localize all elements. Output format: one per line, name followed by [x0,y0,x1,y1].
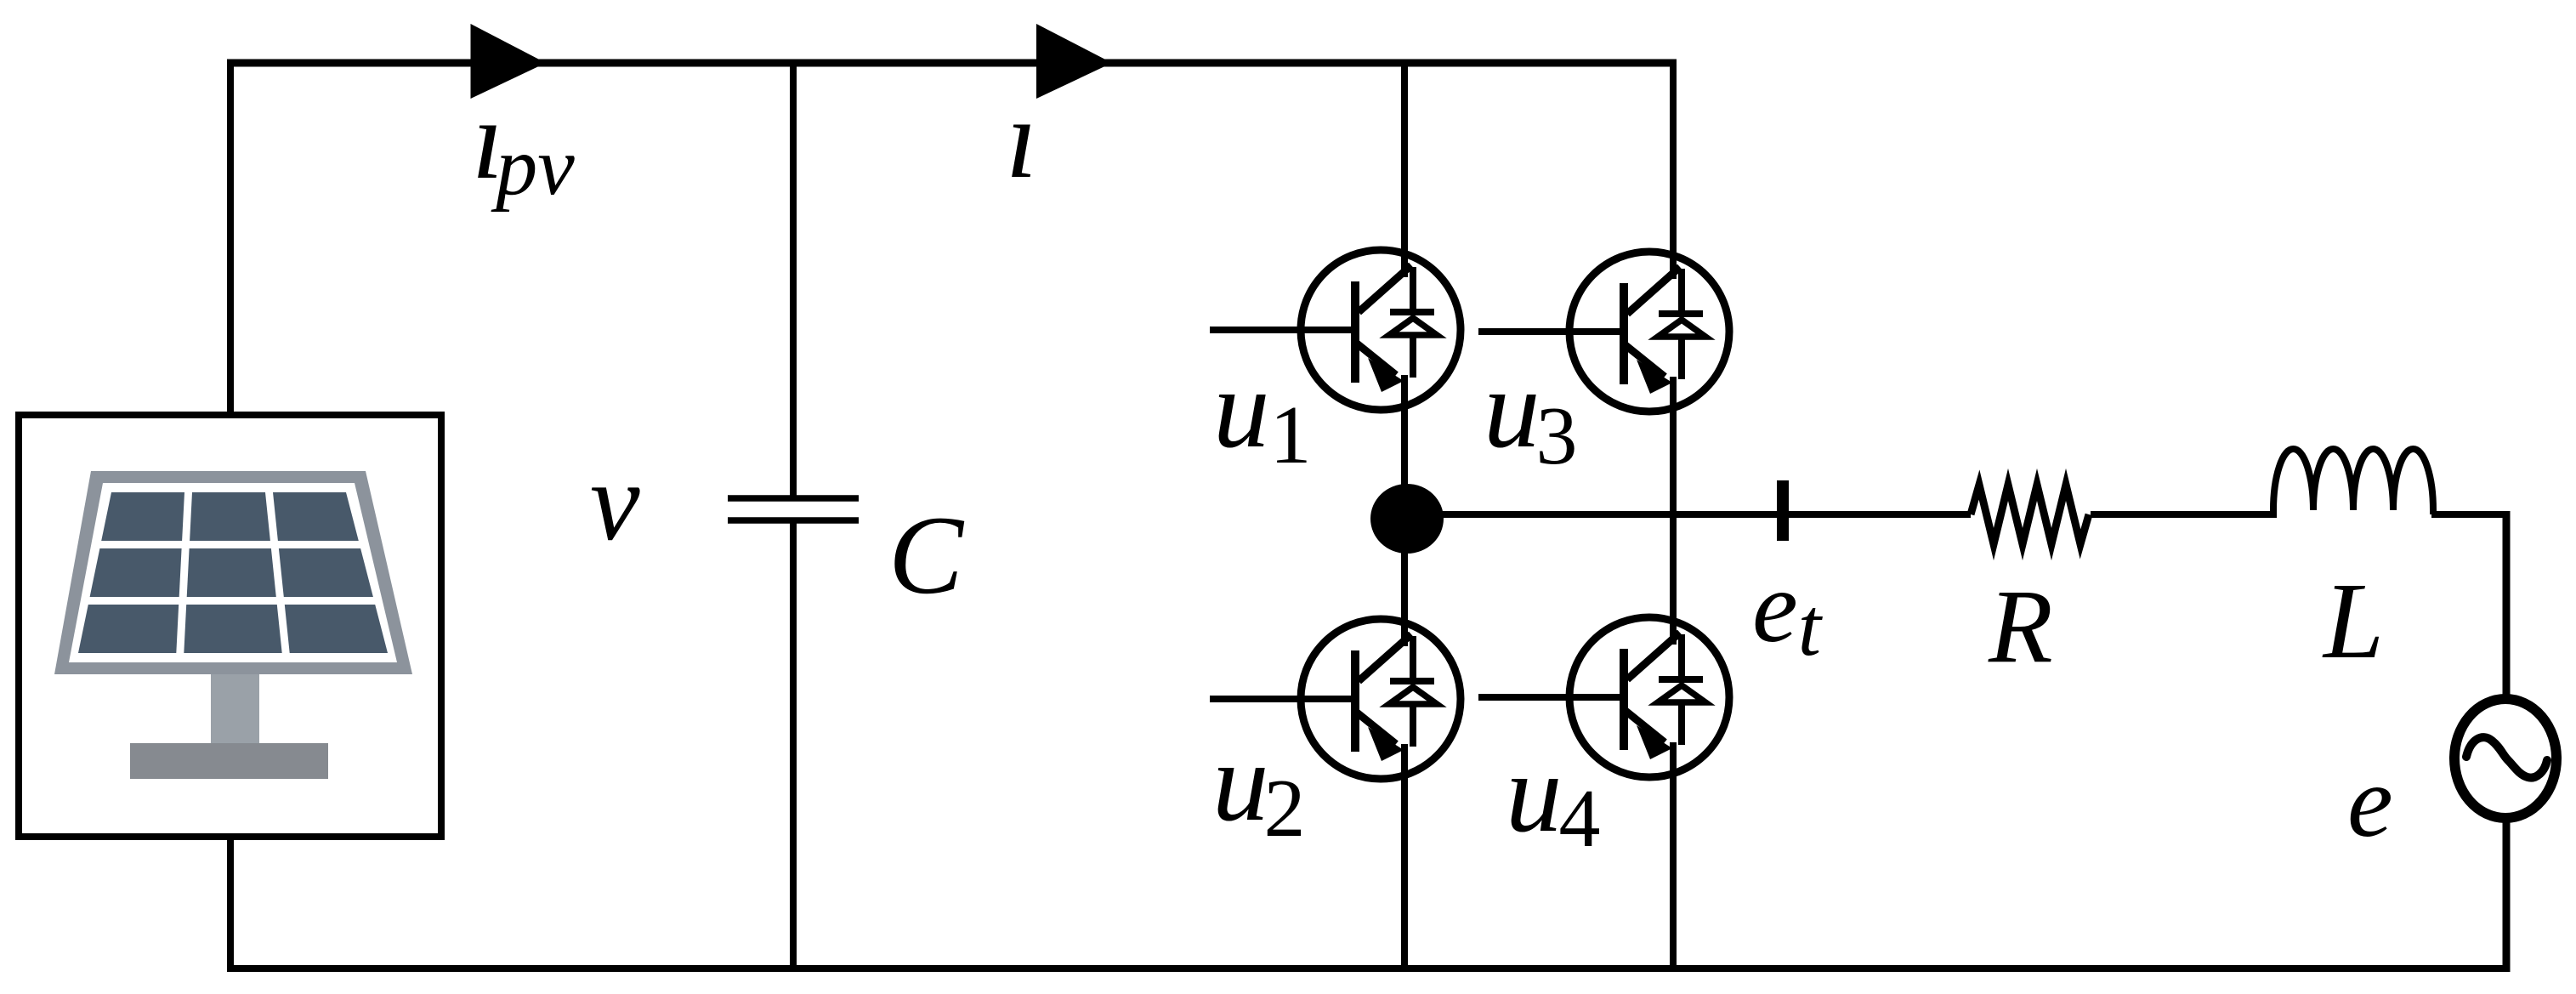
svg-text:et: et [1752,550,1824,673]
AC source e [2454,699,2556,818]
svg-text:ıpv: ıpv [472,77,575,213]
wire: left bridge leg [1401,63,1408,968]
wire: bottom return bus [227,965,2510,972]
wire: AC output line [1406,511,1971,518]
panel cells [101,492,184,541]
svg-text:ı: ı [1006,76,1037,202]
svg-text:L: L [2322,560,2384,681]
node: bridge midpoint junction dot [1370,484,1444,554]
AC source sine wave [2466,737,2547,777]
inductor L [2273,449,2433,518]
PV module box [19,415,441,837]
transistor u2 [1210,616,1461,781]
transistor u3 [1478,249,1729,414]
capacitor C bottom plate [728,517,859,524]
terminal tick e_t [1777,480,1789,541]
svg-text:R: R [1988,568,2053,684]
capacitor C lower lead [790,520,797,968]
svg-text:e: e [2347,745,2393,859]
svg-text:C: C [888,492,965,617]
wire: right bridge leg [1670,63,1677,968]
capacitor C top plate [728,495,859,502]
wire: top DC bus [227,60,1677,67]
current arrow i [1036,24,1112,99]
svg-text:u2: u2 [1212,719,1306,855]
svg-text:u3: u3 [1484,345,1578,482]
wire: grid right riser lower [2503,820,2511,972]
panel stand base [130,743,328,779]
panel stand post [211,674,259,743]
wire: left PV riser [227,60,234,418]
transistor u4 [1478,615,1729,780]
svg-text:v: v [590,439,640,564]
transistor u1 [1210,247,1461,412]
wire: R to L segment [2091,511,2275,518]
solar panel icon [54,471,412,779]
wire: grid right riser upper [2503,511,2511,697]
wire: PV negative lead [227,833,234,972]
resistor R [1971,485,2089,544]
svg-text:u1: u1 [1213,345,1312,481]
panel frame [54,471,412,674]
capacitor C upper lead [790,63,797,498]
wire: L to corner segment [2431,511,2510,518]
current arrow i_pv [471,24,547,99]
panel inner [69,483,397,662]
